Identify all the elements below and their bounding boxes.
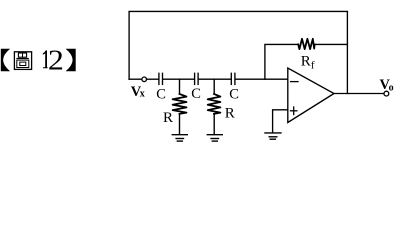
- wire: outer feedback loop (top): [129, 11, 347, 93]
- op-amp minus pin mark: [291, 81, 298, 83]
- op-amp plus pin mark: [291, 110, 297, 112]
- svg-text:R: R: [225, 106, 235, 122]
- wire: [147, 78, 159, 80]
- svg-text:C: C: [229, 86, 239, 102]
- wire: [199, 78, 231, 80]
- wire: to op-amp inverting input: [236, 78, 288, 80]
- svg-text:Vo: Vo: [380, 77, 394, 94]
- figure label bracket left 【: [1, 49, 10, 71]
- figure label text 1: [43, 50, 48, 68]
- op-amp U1: [288, 68, 334, 123]
- node Vo output terminal (open circle): [384, 91, 389, 96]
- wire: Rf feedback loop: [265, 44, 297, 79]
- wire: [163, 78, 194, 80]
- svg-text:Vx: Vx: [131, 84, 145, 100]
- capacitor C2: [194, 73, 196, 84]
- ground (op-amp + input): [265, 133, 281, 139]
- wire: output: [334, 93, 384, 95]
- capacitor C1: [158, 73, 160, 84]
- svg-text:C: C: [191, 86, 201, 102]
- capacitor C3: [230, 73, 232, 84]
- ground (below R1): [172, 135, 187, 141]
- resistor R1: [173, 79, 187, 134]
- svg-text:C: C: [156, 87, 166, 103]
- resistor R2: [208, 79, 221, 134]
- svg-text:Rf: Rf: [301, 54, 315, 72]
- wire: non-inverting input to ground: [273, 110, 288, 133]
- svg-text:R: R: [163, 110, 173, 126]
- wire: input segment to terminal: [129, 78, 142, 80]
- wire: [316, 43, 348, 45]
- figure label bracket right 】: [66, 49, 76, 71]
- ground (below R2): [207, 135, 222, 141]
- svg-text:2: 2: [48, 45, 64, 76]
- resistor Rf: [298, 39, 314, 49]
- node Vx input terminal (open circle): [142, 77, 147, 82]
- figure label glyph 圖: [14, 52, 31, 70]
